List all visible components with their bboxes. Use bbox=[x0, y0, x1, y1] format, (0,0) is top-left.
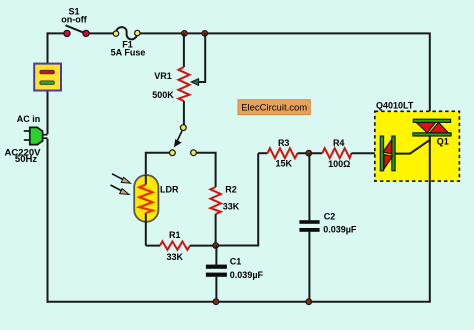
svg-text:5A Fuse: 5A Fuse bbox=[111, 48, 146, 58]
wire through LDR bottom bbox=[145, 213, 147, 246]
triac Q1 bottom bar bbox=[413, 133, 451, 136]
svg-text:ElecCircuit.com: ElecCircuit.com bbox=[241, 103, 307, 114]
label S1 bbox=[68, 7, 79, 17]
label 100ohm bbox=[328, 159, 350, 169]
wire R3 to R4 bbox=[298, 152, 323, 154]
triac Q1 right triangle bbox=[430, 123, 449, 133]
capacitor C2 wire top bbox=[308, 153, 310, 220]
VR1 wiper wire bbox=[198, 33, 205, 82]
junction dot top rail A bbox=[182, 31, 188, 37]
label R3 bbox=[278, 138, 290, 148]
label 5A Fuse bbox=[111, 48, 146, 58]
LDR light arrow 2 bbox=[111, 185, 130, 195]
selector switch top terminal bbox=[180, 125, 186, 131]
junction dot node R3R4C2 bbox=[306, 150, 312, 156]
label 0.039uF C1 bbox=[230, 270, 264, 280]
diac top triangle bbox=[383, 140, 392, 155]
svg-text:50Hz: 50Hz bbox=[15, 154, 37, 165]
label AC in bbox=[17, 114, 41, 124]
svg-text:AC in: AC in bbox=[17, 114, 41, 124]
VR1 wiper arrow bbox=[191, 79, 198, 86]
svg-text:LDR: LDR bbox=[160, 185, 179, 195]
svg-text:0.039µF: 0.039µF bbox=[230, 270, 264, 280]
wire R4 to diac bbox=[351, 152, 380, 154]
svg-text:100Ω: 100Ω bbox=[328, 159, 350, 169]
wire left rail upper bbox=[47, 32, 49, 134]
diac left bar bbox=[380, 136, 383, 171]
svg-text:33K: 33K bbox=[223, 202, 240, 212]
label 0.039uF C2 bbox=[323, 225, 357, 235]
label 15K bbox=[275, 159, 292, 169]
label 33K R2 bbox=[223, 202, 240, 212]
label F1 bbox=[122, 40, 133, 50]
svg-text:VR1: VR1 bbox=[154, 71, 172, 81]
triac Q1 left triangle bbox=[416, 123, 435, 133]
capacitor C1 wire bottom bbox=[215, 277, 217, 302]
junction dot C1 bottom bbox=[213, 299, 219, 305]
svg-text:0.039µF: 0.039µF bbox=[323, 225, 357, 235]
wire R2 bottom bbox=[215, 214, 217, 245]
wire top rail fuse-to-right-corner bbox=[140, 33, 430, 121]
switch S1 arm bbox=[66, 25, 86, 33]
svg-text:C2: C2 bbox=[324, 211, 336, 221]
triac module box Q4010LT bbox=[375, 111, 460, 181]
wire through LDR top bbox=[145, 175, 147, 185]
switch S1 terminal right bbox=[83, 30, 89, 36]
svg-text:R4: R4 bbox=[333, 138, 345, 148]
potentiometer VR1 bbox=[179, 67, 190, 101]
capacitor C2 wire bottom bbox=[308, 232, 310, 302]
label Q1 bbox=[437, 137, 449, 147]
svg-text:R3: R3 bbox=[278, 138, 290, 148]
capacitor C1 plates bbox=[206, 265, 227, 277]
fuse terminal left bbox=[113, 31, 118, 36]
wire LDR to R1 bbox=[146, 245, 160, 247]
LDR resistor zigzag bbox=[139, 185, 152, 214]
wire R1 to junction bbox=[190, 245, 216, 247]
svg-text:C1: C1 bbox=[230, 257, 242, 267]
label C1 bbox=[230, 257, 242, 267]
fuse F1 element bbox=[116, 27, 137, 39]
label 33K R1 bbox=[167, 252, 184, 262]
wire VR1 top bbox=[183, 33, 185, 67]
svg-text:R2: R2 bbox=[225, 185, 237, 195]
label VR1 bbox=[154, 71, 172, 81]
diac to gate wire bbox=[396, 139, 431, 153]
plug P1 bbox=[24, 127, 48, 144]
junction dot top rail B bbox=[202, 31, 208, 37]
label R1 bbox=[169, 230, 181, 240]
wire junction to R3 riser bbox=[216, 153, 259, 245]
wire top rail left segment bbox=[48, 32, 65, 34]
wire VR1 bottom bbox=[183, 101, 185, 125]
wire bottom rail bbox=[47, 301, 431, 303]
selector switch arm arrow bbox=[174, 131, 182, 147]
wire top rail S1-to-fuse bbox=[89, 32, 114, 34]
svg-text:33K: 33K bbox=[167, 252, 184, 262]
label AC220V bbox=[5, 147, 42, 158]
diac right bar bbox=[392, 136, 395, 171]
label on-off bbox=[61, 15, 87, 25]
resistor R4 bbox=[322, 148, 351, 158]
selector switch left contact bbox=[170, 150, 176, 156]
label R4 bbox=[333, 138, 345, 148]
ElecCircuit.com badge bbox=[238, 100, 310, 115]
label 500K bbox=[152, 90, 174, 100]
wire left contact to LDR branch bbox=[146, 153, 170, 176]
wire left rail lower bbox=[47, 139, 49, 303]
resistor R3 bbox=[268, 148, 298, 158]
label 50Hz bbox=[15, 154, 37, 165]
wire into R3 bbox=[258, 152, 267, 154]
junction dot C2 bottom bbox=[306, 299, 312, 305]
label C2 bbox=[324, 211, 336, 221]
LDR body bbox=[134, 175, 158, 222]
LDR light arrow 1 bbox=[112, 174, 131, 183]
resistor R1 bbox=[160, 241, 190, 249]
triac Q1 top bar bbox=[413, 119, 450, 122]
svg-text:on-off: on-off bbox=[61, 15, 87, 25]
capacitor C2 plates bbox=[299, 220, 319, 232]
label LDR bbox=[160, 185, 179, 195]
resistor R2 bbox=[210, 187, 220, 214]
capacitor C1 wire top bbox=[215, 246, 217, 265]
svg-text:Q1: Q1 bbox=[437, 137, 449, 147]
diac bottom triangle bbox=[384, 155, 393, 169]
svg-text:R1: R1 bbox=[169, 230, 181, 240]
svg-text:500K: 500K bbox=[152, 90, 174, 100]
svg-text:Q4010LT: Q4010LT bbox=[376, 101, 414, 111]
switch S1 terminal left bbox=[64, 30, 70, 36]
junction dot node R1R2C1 bbox=[213, 243, 219, 249]
wire right rail through triac bbox=[429, 135, 431, 302]
selector switch right contact bbox=[191, 150, 197, 156]
AC outlet box bbox=[34, 64, 61, 91]
label Q4010LT bbox=[376, 101, 414, 111]
svg-text:15K: 15K bbox=[275, 159, 292, 169]
label R2 bbox=[225, 185, 237, 195]
wire right contact to R2 branch bbox=[197, 153, 216, 187]
fuse terminal right bbox=[135, 30, 140, 35]
